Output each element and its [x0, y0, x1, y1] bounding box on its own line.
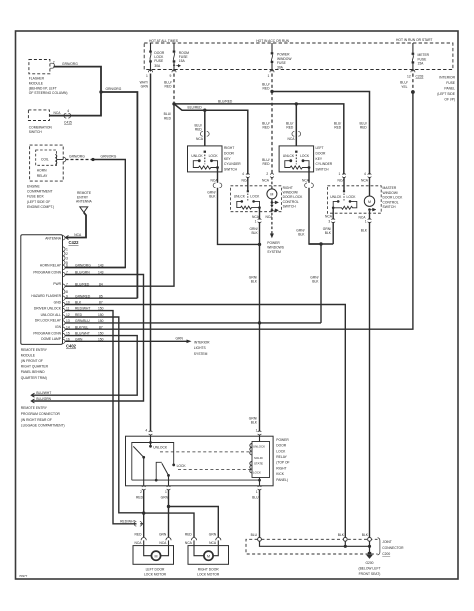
- wire BLK/YEL ign to meter fuse: [65, 92, 413, 329]
- interior fuse panel dashed box: [144, 43, 453, 70]
- svg-text:PANEL): PANEL): [276, 478, 288, 482]
- svg-text:70977: 70977: [19, 574, 28, 578]
- svg-text:GND: GND: [54, 300, 62, 304]
- svg-text:LOCK: LOCK: [209, 154, 219, 158]
- svg-text:15A: 15A: [418, 62, 425, 66]
- svg-text:BLK: BLK: [251, 421, 258, 425]
- pole: [204, 151, 206, 153]
- svg-text:LIGHTS: LIGHTS: [194, 346, 207, 350]
- svg-text:BLK: BLK: [209, 195, 216, 199]
- svg-text:(IN FRONT OF: (IN FRONT OF: [21, 359, 43, 363]
- svg-text:OF STEERING COLUMN): OF STEERING COLUMN): [29, 91, 68, 95]
- svg-text:DOOR: DOOR: [316, 151, 327, 155]
- svg-text:LUGGAGE COMPARTMENT): LUGGAGE COMPARTMENT): [21, 424, 65, 428]
- fuse exit connectors: [149, 70, 415, 72]
- svg-text:MODULE: MODULE: [29, 81, 44, 85]
- inline connector NCA: [200, 132, 209, 137]
- empty pins 2-5: [63, 247, 66, 265]
- svg-text:30A: 30A: [277, 66, 284, 70]
- svg-text:(IN RIGHT REAR OF: (IN RIGHT REAR OF: [21, 418, 52, 422]
- svg-text:1: 1: [165, 490, 167, 494]
- wire BLU/WHT program conn: [32, 336, 138, 396]
- svg-text:COMPARTMENT: COMPARTMENT: [27, 190, 53, 194]
- lock switch arm: [162, 463, 169, 475]
- svg-text:GRN/ORG: GRN/ORG: [101, 155, 117, 159]
- svg-text:PROGRAM CONNECTOR: PROGRAM CONNECTOR: [21, 412, 61, 416]
- svg-text:LOCK MOTOR: LOCK MOTOR: [144, 573, 167, 577]
- svg-text:UNLCK: UNLCK: [234, 195, 246, 199]
- svg-text:PANEL: PANEL: [444, 87, 455, 91]
- control switch dashed box: [231, 186, 282, 212]
- svg-text:UNLOCK ALL: UNLOCK ALL: [41, 313, 62, 317]
- wire RED/WHT driver unlock: [65, 311, 136, 524]
- svg-text:RELAY: RELAY: [37, 174, 48, 178]
- svg-text:REMOTE ENTRY: REMOTE ENTRY: [21, 406, 48, 410]
- svg-text:BLU: BLU: [251, 533, 258, 537]
- wire BLU/RED to right key cylinder: [204, 110, 206, 146]
- svg-text:C422: C422: [69, 240, 80, 245]
- solid state coil box: [252, 442, 270, 478]
- motor dashed output to power windows system: [271, 199, 273, 234]
- svg-text:3: 3: [66, 256, 68, 260]
- arrow to interior lights system: [187, 340, 192, 344]
- resistor loop: [193, 161, 217, 169]
- svg-text:PROGRAM CONN: PROGRAM CONN: [33, 270, 61, 274]
- svg-text:1: 1: [146, 74, 148, 78]
- svg-text:1: 1: [338, 172, 340, 176]
- junction node right key cyl feed: [203, 109, 206, 112]
- svg-text:LOCK: LOCK: [300, 154, 310, 158]
- svg-text:FUSE: FUSE: [154, 59, 164, 63]
- junction node on room fuse wire: [172, 102, 175, 105]
- svg-text:M: M: [368, 200, 371, 204]
- unlock contact: [150, 435, 152, 447]
- svg-text:PWR: PWR: [53, 282, 61, 286]
- svg-text:ANTENNA: ANTENNA: [76, 200, 93, 204]
- svg-text:ENGINE: ENGINE: [27, 184, 40, 188]
- svg-text:NCA: NCA: [325, 215, 333, 219]
- horn relay coil: [55, 155, 57, 165]
- wire GRN/BLK down to relay coil: [259, 244, 261, 431]
- output wire GRN/BLK: [217, 168, 219, 183]
- svg-text:GRN: GRN: [176, 336, 184, 340]
- key cylinder box: [188, 146, 223, 172]
- svg-text:DOME LAMP: DOME LAMP: [41, 337, 62, 341]
- svg-text:(BELOW LEFT: (BELOW LEFT: [359, 567, 381, 571]
- svg-text:NCA: NCA: [302, 178, 310, 182]
- svg-text:CONTROL: CONTROL: [283, 200, 299, 204]
- svg-text:GRN/ORG: GRN/ORG: [62, 62, 78, 66]
- indicator arrow: [368, 208, 371, 211]
- fuse ROOM FUSE 15A: [173, 43, 181, 70]
- horn relay box: [36, 150, 57, 165]
- svg-text:GRN: GRN: [161, 496, 169, 500]
- svg-text:1: 1: [256, 428, 258, 432]
- svg-text:RED: RED: [263, 162, 271, 166]
- svg-text:HORN RELAY: HORN RELAY: [40, 263, 62, 267]
- svg-text:FLASHER: FLASHER: [29, 77, 45, 81]
- svg-text:MASTER: MASTER: [383, 186, 397, 190]
- svg-text:BLU/RED: BLU/RED: [188, 106, 203, 110]
- svg-text:4: 4: [145, 428, 147, 432]
- bottom pin 1 output GRN/BLK: [259, 208, 261, 220]
- pole: [295, 151, 297, 153]
- svg-text:METER: METER: [418, 53, 430, 57]
- bracket: [378, 538, 380, 555]
- svg-text:PROGRAM CONN: PROGRAM CONN: [33, 331, 61, 335]
- svg-text:UNLOCK: UNLOCK: [253, 445, 265, 449]
- svg-text:LOCK: LOCK: [253, 471, 261, 475]
- svg-text:KEY: KEY: [316, 157, 323, 161]
- svg-text:RED: RED: [360, 126, 368, 130]
- svg-text:C415: C415: [64, 121, 72, 125]
- svg-text:SWITCH: SWITCH: [383, 205, 397, 209]
- svg-text:1: 1: [256, 490, 258, 494]
- wire WHT/GRN door lock fuse to relay: [150, 74, 152, 432]
- svg-text:UNLCK: UNLCK: [191, 154, 203, 158]
- svg-text:1: 1: [66, 247, 68, 251]
- svg-text:SWITCH: SWITCH: [29, 130, 43, 134]
- svg-text:HORN: HORN: [37, 169, 47, 173]
- wire BLU/RED room fuse (dashed): [173, 74, 175, 104]
- svg-text:NCA: NCA: [288, 137, 296, 141]
- inline connector NCA: [292, 132, 301, 137]
- svg-text:LOCK: LOCK: [177, 464, 187, 468]
- svg-text:FUSE: FUSE: [446, 81, 456, 85]
- svg-text:RIGHT DOOR: RIGHT DOOR: [198, 567, 220, 571]
- svg-text:NCA: NCA: [196, 137, 204, 141]
- resistor loop: [285, 161, 309, 169]
- lock switch pole: [156, 462, 162, 480]
- svg-text:COIL: COIL: [41, 158, 49, 162]
- wire BLU/RED trunk to master switch pin4: [272, 92, 370, 175]
- junction node left key cyl feed: [295, 102, 298, 105]
- svg-text:OF I/P): OF I/P): [444, 98, 455, 102]
- svg-text:BLU: BLU: [252, 496, 259, 500]
- svg-text:C200: C200: [382, 552, 390, 556]
- svg-text:SWITCH: SWITCH: [224, 168, 238, 172]
- fuse DOOR LOCK FUSE 30A: [149, 43, 152, 70]
- svg-text:RED: RED: [263, 126, 271, 130]
- svg-text:LOCK: LOCK: [276, 449, 286, 453]
- svg-text:2: 2: [266, 172, 268, 176]
- svg-text:RED: RED: [185, 533, 193, 537]
- svg-text:WINDOW/: WINDOW/: [283, 191, 298, 195]
- svg-text:9: 9: [170, 74, 172, 78]
- svg-text:POWER: POWER: [267, 241, 280, 245]
- junction node power window feed: [270, 90, 273, 93]
- svg-text:G200: G200: [365, 561, 373, 565]
- svg-text:3: 3: [328, 220, 330, 224]
- svg-text:YEL: YEL: [401, 85, 407, 89]
- svg-text:STATE: STATE: [254, 461, 263, 465]
- svg-text:RIGHT: RIGHT: [283, 186, 293, 190]
- svg-text:NCA: NCA: [211, 178, 219, 182]
- svg-text:COMBINATION: COMBINATION: [29, 125, 53, 129]
- svg-text:DOOR: DOOR: [224, 151, 235, 155]
- actuation dashed links: [160, 451, 251, 453]
- svg-text:RED: RED: [334, 126, 342, 130]
- svg-text:UNLOCK: UNLOCK: [153, 445, 168, 449]
- svg-text:GRN: GRN: [141, 85, 149, 89]
- svg-text:NCA: NCA: [209, 541, 217, 545]
- wire GRN/BLU dr lock relay: [65, 322, 321, 324]
- svg-text:2: 2: [66, 252, 68, 256]
- svg-text:SWITCH: SWITCH: [283, 205, 297, 209]
- wire GRN/ORG trunk: [101, 92, 137, 298]
- svg-text:BLK: BLK: [298, 233, 305, 237]
- svg-text:BLU/WHT: BLU/WHT: [36, 391, 51, 395]
- fuse POWER WINDOW FUSE 30A: [271, 43, 274, 70]
- svg-text:LEFT: LEFT: [316, 146, 324, 150]
- svg-text:RELAY: RELAY: [276, 455, 287, 459]
- svg-text:M: M: [207, 555, 210, 559]
- svg-text:INTERIOR: INTERIOR: [194, 341, 210, 345]
- svg-text:WINDOW/: WINDOW/: [383, 191, 398, 195]
- contacts: [198, 159, 201, 162]
- motor symbol: [267, 189, 277, 199]
- bottom pin 1 output BLK: [369, 211, 371, 220]
- joint connector ring master BLK wire: [368, 537, 372, 541]
- joint connector dashed bus A: [261, 538, 377, 540]
- svg-text:DOOR LOCK: DOOR LOCK: [283, 195, 304, 199]
- wire BLU/RED line1 to master switch pin1: [174, 104, 344, 175]
- wire RED unlock all: [65, 317, 144, 513]
- contacts: [241, 200, 244, 203]
- switch pole: [343, 177, 345, 191]
- switch pole: [247, 177, 249, 191]
- svg-text:RED: RED: [136, 496, 144, 500]
- svg-text:2: 2: [53, 61, 55, 65]
- svg-text:4: 4: [242, 172, 244, 176]
- svg-text:HOT IN RUN OR START: HOT IN RUN OR START: [396, 38, 432, 42]
- horn relay output wire GRN/ORG (dashed then solid): [63, 157, 65, 162]
- wire BLU/RED dashed to control switch pin2: [271, 92, 273, 175]
- svg-text:CYLINDER: CYLINDER: [316, 162, 333, 166]
- svg-text:UNLCK: UNLCK: [283, 154, 295, 158]
- svg-text:IGN: IGN: [55, 325, 61, 329]
- engine compartment fuse box: [30, 145, 64, 181]
- svg-text:CONNECTOR: CONNECTOR: [382, 546, 404, 550]
- svg-text:(TOP OF: (TOP OF: [276, 461, 289, 465]
- svg-text:MODULE: MODULE: [21, 353, 36, 357]
- motor M1: [151, 551, 160, 560]
- svg-text:LEFT DOOR: LEFT DOOR: [146, 567, 165, 571]
- svg-text:KEY: KEY: [224, 157, 231, 161]
- wire BLU/GRN program conn: [32, 275, 144, 402]
- svg-text:BLK: BLK: [361, 229, 368, 233]
- svg-text:FUSE BOX: FUSE BOX: [27, 195, 44, 199]
- svg-text:FRONT SEAT): FRONT SEAT): [359, 572, 381, 576]
- svg-text:1: 1: [268, 74, 270, 78]
- svg-text:REMOTE ENTRY: REMOTE ENTRY: [21, 348, 48, 352]
- svg-text:LOCK: LOCK: [347, 195, 357, 199]
- svg-text:BLK: BLK: [251, 231, 258, 235]
- svg-text:BLK: BLK: [325, 231, 332, 235]
- svg-text:4: 4: [67, 109, 69, 113]
- junction with right key cylinder wire: [258, 243, 261, 246]
- connector arrow BLU/GRN: [31, 399, 34, 403]
- lock contact: [172, 464, 175, 467]
- svg-text:30A: 30A: [154, 64, 161, 68]
- svg-text:RIGHT QUARTER: RIGHT QUARTER: [21, 365, 49, 369]
- contacts: [337, 200, 340, 203]
- svg-text:BLK: BLK: [338, 533, 345, 537]
- merge bracket: [309, 243, 333, 245]
- svg-text:1: 1: [255, 220, 257, 224]
- svg-text:NCA: NCA: [159, 541, 167, 545]
- svg-text:RED: RED: [286, 126, 294, 130]
- svg-text:RIGHT: RIGHT: [224, 146, 234, 150]
- wire GRN/RED hazard: [65, 297, 137, 299]
- flasher pin 2: [50, 63, 54, 68]
- joint connector dashed bus B: [246, 539, 378, 554]
- svg-text:RED: RED: [135, 533, 143, 537]
- flasher module box: [29, 60, 50, 74]
- wire GRN/BLK merge down to dr lock relay row: [320, 244, 322, 323]
- wire BLU relay coil to joint connector: [259, 489, 261, 537]
- svg-text:BLK: BLK: [312, 280, 319, 284]
- resistor loop: [237, 201, 260, 209]
- wire GRN relay to motors: [168, 489, 170, 537]
- wire horn relay to module pin 6: [65, 160, 125, 268]
- svg-text:DRIVER UNLOCK: DRIVER UNLOCK: [34, 306, 62, 310]
- wire GRN dome lamp to interior lights: [65, 340, 186, 342]
- svg-text:C402: C402: [66, 344, 77, 349]
- indicator arrows: [271, 201, 274, 204]
- svg-text:(BEHIND I/P, LEFT: (BEHIND I/P, LEFT: [29, 86, 57, 90]
- svg-text:RED/WHT: RED/WHT: [120, 519, 135, 523]
- wire RED relay to motors: [143, 489, 145, 537]
- svg-text:GRN: GRN: [209, 533, 217, 537]
- svg-text:GRN/ORG: GRN/ORG: [69, 155, 85, 159]
- junction node meter fuse: [411, 90, 415, 94]
- svg-text:4: 4: [364, 172, 366, 176]
- svg-text:KICK: KICK: [276, 472, 284, 476]
- svg-text:RED: RED: [165, 85, 173, 89]
- svg-text:NCA: NCA: [262, 178, 270, 182]
- wire BLU/YEL meter fuse (dashed): [412, 74, 414, 93]
- svg-text:(LEFT SIDE: (LEFT SIDE: [437, 92, 456, 96]
- svg-text:RED: RED: [164, 116, 172, 120]
- bottom internal wire: [132, 479, 260, 481]
- svg-text:SYSTEM: SYSTEM: [267, 250, 281, 254]
- wire BLK gnd to joint connector: [65, 305, 345, 539]
- svg-text:RIGHT: RIGHT: [276, 466, 286, 470]
- svg-text:BLU/GRN: BLU/GRN: [36, 397, 51, 401]
- svg-text:WINDOWS: WINDOWS: [267, 246, 284, 250]
- svg-text:SWITCH: SWITCH: [316, 168, 330, 172]
- svg-text:SYSTEM: SYSTEM: [194, 352, 208, 356]
- wire BLU/RED to left key cylinder: [295, 104, 297, 146]
- key cylinder box: [279, 146, 314, 172]
- relay box: [126, 436, 274, 486]
- junction node GRN/ORG: [99, 90, 102, 93]
- connector arrow BLU/WHT: [31, 393, 34, 397]
- svg-text:12: 12: [407, 75, 411, 79]
- svg-text:RED: RED: [263, 87, 271, 91]
- svg-text:NCA: NCA: [361, 178, 369, 182]
- joint connector ring BLU: [258, 537, 262, 541]
- unlock switch arm: [133, 446, 143, 457]
- contacts: [289, 159, 292, 162]
- svg-text:NCA: NCA: [74, 233, 82, 237]
- ground G200: [368, 552, 371, 555]
- svg-text:RED: RED: [195, 128, 203, 132]
- fuse METER FUSE 15A: [412, 43, 415, 70]
- remote entry module box: [21, 235, 63, 345]
- wire BLU/RED power window fuse (dashed): [271, 74, 273, 92]
- resistor loop: [333, 201, 357, 209]
- svg-text:1: 1: [365, 220, 367, 224]
- svg-text:ANTENNA: ANTENNA: [45, 236, 62, 240]
- svg-text:PANEL BEHIND: PANEL BEHIND: [21, 370, 45, 374]
- svg-text:DR LOCK RELAY: DR LOCK RELAY: [35, 319, 62, 323]
- empty pin 8: [63, 290, 66, 294]
- svg-text:HOT AT ALL TIMES: HOT AT ALL TIMES: [149, 39, 179, 43]
- svg-text:LOCK MOTOR: LOCK MOTOR: [197, 573, 220, 577]
- bottom pin 3 output GRN/BLK: [332, 208, 334, 220]
- svg-text:(LEFT SIDE OF: (LEFT SIDE OF: [27, 200, 50, 204]
- svg-text:NCA: NCA: [54, 111, 62, 115]
- joint connector ring GND wire: [343, 537, 347, 541]
- svg-text:GRN: GRN: [159, 533, 167, 537]
- top internal wire: [132, 443, 174, 481]
- coil bumps: [250, 444, 252, 455]
- svg-text:INTERIOR: INTERIOR: [439, 76, 455, 80]
- combination switch box: [28, 110, 49, 121]
- svg-text:HOT IN ACC OR RUN: HOT IN ACC OR RUN: [256, 39, 289, 43]
- svg-text:POWER: POWER: [277, 53, 290, 57]
- svg-text:GRN/ORG: GRN/ORG: [106, 87, 122, 91]
- svg-text:15A: 15A: [179, 59, 186, 63]
- svg-text:NCA: NCA: [135, 541, 143, 545]
- coil return wire: [259, 478, 261, 486]
- svg-text:HAZARD FLASHER: HAZARD FLASHER: [31, 294, 61, 298]
- svg-text:CONTROL: CONTROL: [383, 200, 399, 204]
- wire BLU/RED pwr: [65, 104, 174, 286]
- svg-text:POWER: POWER: [276, 438, 289, 442]
- motor M2: [204, 551, 213, 560]
- output wire GRN/BLK: [308, 168, 310, 183]
- svg-text:LOCK: LOCK: [250, 195, 260, 199]
- svg-text:DOOR: DOOR: [276, 444, 287, 448]
- svg-text:SOLID: SOLID: [254, 456, 263, 460]
- svg-text:BLU/RED: BLU/RED: [218, 99, 233, 103]
- svg-text:2: 2: [140, 490, 142, 494]
- svg-text:ENGINE COMPT.): ENGINE COMPT.): [27, 205, 54, 209]
- svg-text:M: M: [155, 555, 158, 559]
- motor symbol: [364, 196, 374, 206]
- svg-text:NCA: NCA: [252, 215, 260, 219]
- wire BLK master switch to ground: [369, 222, 371, 539]
- svg-text:CYLINDER: CYLINDER: [224, 162, 241, 166]
- svg-text:NCA: NCA: [185, 541, 193, 545]
- svg-text:M: M: [270, 193, 273, 197]
- svg-text:BLK: BLK: [362, 533, 369, 537]
- master switch dashed box: [327, 186, 381, 213]
- svg-text:UNLCK: UNLCK: [330, 195, 342, 199]
- svg-text:QUARTER TRIM): QUARTER TRIM): [21, 376, 47, 380]
- wire BLU/RED line2 to right control switch pin4: [174, 104, 248, 175]
- svg-text:C203: C203: [416, 75, 424, 79]
- svg-text:DOOR LOCK: DOOR LOCK: [383, 196, 404, 200]
- svg-text:JOINT: JOINT: [382, 540, 392, 544]
- svg-text:BLK: BLK: [251, 280, 258, 284]
